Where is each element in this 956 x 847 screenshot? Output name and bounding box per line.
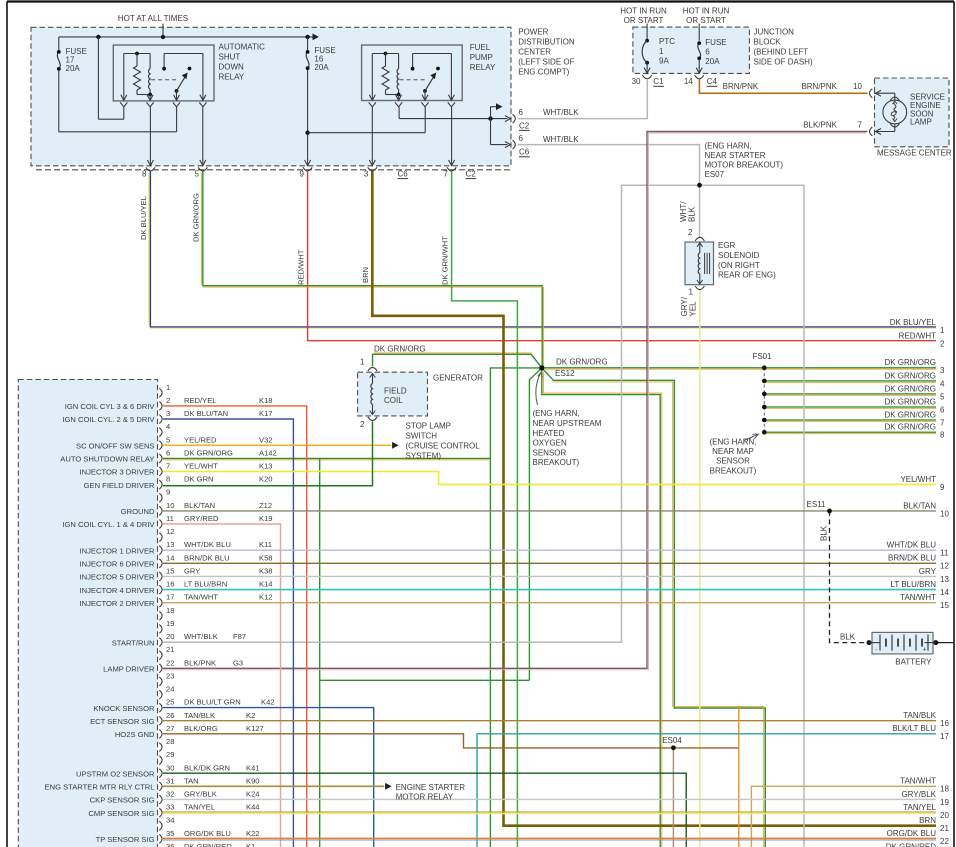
- svg-text:14: 14: [940, 588, 949, 597]
- svg-text:TAN/WHT: TAN/WHT: [900, 777, 936, 786]
- svg-text:C1: C1: [653, 77, 664, 86]
- svg-text:BLOCK: BLOCK: [754, 38, 782, 47]
- svg-text:SENSOR: SENSOR: [716, 457, 750, 466]
- svg-text:YEL/WHT: YEL/WHT: [184, 462, 218, 471]
- svg-text:AUTO SHUTDOWN RELAY: AUTO SHUTDOWN RELAY: [60, 455, 154, 464]
- svg-text:3: 3: [166, 409, 170, 418]
- svg-text:5: 5: [166, 435, 170, 444]
- svg-text:WHT/DK BLU: WHT/DK BLU: [184, 540, 231, 549]
- svg-text:C4: C4: [707, 77, 718, 86]
- svg-text:BREAKOUT): BREAKOUT): [533, 458, 580, 467]
- svg-text:31: 31: [166, 776, 174, 785]
- svg-text:BRN: BRN: [919, 816, 936, 825]
- svg-text:INJECTOR 3 DRIVER: INJECTOR 3 DRIVER: [80, 468, 155, 477]
- svg-text:K14: K14: [259, 580, 273, 589]
- svg-text:TAN/YEL: TAN/YEL: [184, 803, 215, 812]
- svg-text:DK GRN/WHT: DK GRN/WHT: [440, 236, 449, 285]
- svg-text:HOT IN RUN: HOT IN RUN: [620, 7, 667, 16]
- svg-text:K18: K18: [259, 396, 273, 405]
- svg-text:19: 19: [166, 619, 174, 628]
- svg-text:K13: K13: [259, 462, 273, 471]
- svg-text:K1: K1: [246, 842, 255, 847]
- svg-text:12: 12: [166, 527, 174, 536]
- svg-text:1: 1: [659, 47, 664, 56]
- svg-text:START/RUN: START/RUN: [112, 638, 155, 647]
- svg-text:NEAR MAP: NEAR MAP: [712, 447, 754, 456]
- svg-text:7: 7: [940, 418, 945, 427]
- svg-text:LAMP: LAMP: [910, 118, 932, 127]
- svg-text:IGN COIL CYL. 1 & 4 DRIV: IGN COIL CYL. 1 & 4 DRIV: [62, 520, 155, 529]
- svg-text:YEL/WHT: YEL/WHT: [900, 475, 936, 484]
- svg-text:21: 21: [166, 645, 174, 654]
- svg-text:TAN/YEL: TAN/YEL: [903, 803, 936, 812]
- svg-text:4: 4: [940, 379, 945, 388]
- svg-text:DK GRN/RED: DK GRN/RED: [886, 842, 936, 847]
- svg-text:REAR OF ENG): REAR OF ENG): [718, 271, 776, 280]
- svg-text:ES11: ES11: [807, 500, 827, 509]
- svg-text:K90: K90: [246, 776, 260, 785]
- svg-text:K17: K17: [259, 409, 273, 418]
- svg-text:TAN/WHT: TAN/WHT: [900, 593, 936, 602]
- svg-text:15: 15: [166, 566, 174, 575]
- svg-text:BLK: BLK: [688, 206, 697, 222]
- svg-text:BLK/PNK: BLK/PNK: [803, 121, 837, 130]
- svg-text:BRN/DK BLU: BRN/DK BLU: [184, 553, 230, 562]
- svg-text:6: 6: [519, 134, 524, 143]
- svg-text:(ENG HARN,: (ENG HARN,: [709, 437, 756, 446]
- svg-text:SENSOR: SENSOR: [533, 448, 567, 457]
- svg-text:GRY/BLK: GRY/BLK: [184, 790, 217, 799]
- svg-text:DK GRN/ORG: DK GRN/ORG: [884, 410, 936, 419]
- svg-text:K20: K20: [259, 475, 273, 484]
- svg-text:29: 29: [166, 750, 174, 759]
- svg-text:36: 36: [166, 842, 174, 847]
- svg-text:9: 9: [300, 170, 305, 179]
- svg-text:INJECTOR 4 DRIVER: INJECTOR 4 DRIVER: [80, 586, 155, 595]
- svg-text:34: 34: [166, 816, 174, 825]
- svg-text:CKP SENSOR SIG: CKP SENSOR SIG: [90, 796, 155, 805]
- svg-text:9: 9: [940, 483, 945, 492]
- svg-text:MOTOR RELAY: MOTOR RELAY: [396, 793, 454, 802]
- svg-text:HOT AT ALL TIMES: HOT AT ALL TIMES: [118, 14, 188, 23]
- svg-text:INJECTOR 6 DRIVER: INJECTOR 6 DRIVER: [80, 560, 155, 569]
- svg-text:8: 8: [166, 475, 170, 484]
- svg-text:30: 30: [166, 763, 174, 772]
- svg-text:(ENG HARN,: (ENG HARN,: [533, 409, 580, 418]
- svg-text:DK GRN/ORG: DK GRN/ORG: [884, 371, 936, 380]
- svg-text:28: 28: [166, 737, 174, 746]
- svg-text:K24: K24: [246, 790, 260, 799]
- svg-text:ECT SENSOR SIG: ECT SENSOR SIG: [90, 717, 155, 726]
- svg-text:9: 9: [166, 488, 170, 497]
- svg-text:TP SENSOR SIG: TP SENSOR SIG: [96, 835, 155, 844]
- svg-text:FIELD: FIELD: [384, 386, 407, 395]
- svg-text:GEN FIELD DRIVER: GEN FIELD DRIVER: [84, 481, 155, 490]
- svg-text:8: 8: [142, 170, 147, 179]
- svg-text:DK GRN/ORG: DK GRN/ORG: [884, 423, 936, 432]
- svg-text:DK GRN/ORG: DK GRN/ORG: [374, 345, 426, 354]
- svg-text:32: 32: [166, 790, 174, 799]
- svg-text:DOWN: DOWN: [219, 62, 245, 71]
- svg-text:TAN/WHT: TAN/WHT: [184, 593, 218, 602]
- svg-text:C6: C6: [398, 170, 409, 179]
- svg-text:BRN: BRN: [361, 267, 370, 283]
- svg-text:INJECTOR 1 DRIVER: INJECTOR 1 DRIVER: [80, 546, 155, 555]
- svg-text:WHT/BLK: WHT/BLK: [543, 135, 579, 144]
- svg-text:25: 25: [166, 698, 174, 707]
- svg-text:10: 10: [940, 509, 949, 518]
- svg-text:CMP SENSOR SIG: CMP SENSOR SIG: [88, 809, 154, 818]
- svg-text:11: 11: [940, 549, 949, 558]
- svg-text:WHT/DK BLU: WHT/DK BLU: [887, 541, 937, 550]
- svg-text:ES12: ES12: [555, 369, 575, 378]
- svg-text:KNOCK SENSOR: KNOCK SENSOR: [93, 704, 155, 713]
- svg-text:18: 18: [166, 606, 174, 615]
- svg-text:13: 13: [166, 540, 174, 549]
- svg-text:6: 6: [519, 108, 524, 117]
- svg-text:C2: C2: [519, 121, 530, 130]
- svg-text:GROUND: GROUND: [121, 507, 155, 516]
- svg-text:HOT IN RUN: HOT IN RUN: [683, 7, 730, 16]
- svg-text:DISTRIBUTION: DISTRIBUTION: [518, 38, 575, 47]
- svg-text:GRY: GRY: [184, 566, 200, 575]
- svg-text:SC ON/OFF SW SENS: SC ON/OFF SW SENS: [76, 441, 154, 450]
- svg-text:(CRUISE CONTROL: (CRUISE CONTROL: [406, 442, 481, 451]
- svg-text:14: 14: [166, 553, 174, 562]
- svg-text:7: 7: [443, 170, 448, 179]
- svg-text:HO2S GND: HO2S GND: [115, 730, 155, 739]
- svg-text:2: 2: [940, 339, 945, 348]
- svg-text:DK BLU/YEL: DK BLU/YEL: [139, 196, 148, 240]
- svg-text:20: 20: [166, 632, 174, 641]
- svg-text:6: 6: [940, 405, 945, 414]
- svg-text:OR START: OR START: [686, 16, 726, 25]
- svg-text:-: -: [875, 647, 877, 654]
- svg-text:K2: K2: [246, 711, 255, 720]
- svg-text:RELAY: RELAY: [470, 63, 496, 72]
- svg-text:A142: A142: [259, 448, 277, 457]
- svg-text:23: 23: [166, 671, 174, 680]
- svg-text:K19: K19: [259, 514, 273, 523]
- svg-text:HEATED: HEATED: [533, 429, 565, 438]
- svg-text:15: 15: [940, 601, 949, 610]
- svg-text:(ON RIGHT: (ON RIGHT: [718, 261, 760, 270]
- svg-text:DK GRN/ORG: DK GRN/ORG: [884, 397, 936, 406]
- svg-text:SWITCH: SWITCH: [406, 432, 438, 441]
- svg-text:IGN COIL CYL. 2 & 5 DRIV: IGN COIL CYL. 2 & 5 DRIV: [62, 415, 155, 424]
- svg-text:35: 35: [166, 829, 174, 838]
- svg-text:BREAKOUT): BREAKOUT): [710, 466, 757, 475]
- svg-text:K44: K44: [246, 803, 260, 812]
- svg-text:C6: C6: [519, 148, 530, 157]
- svg-text:1: 1: [940, 326, 945, 335]
- svg-text:RELAY: RELAY: [219, 72, 245, 81]
- svg-text:TAN/BLK: TAN/BLK: [184, 711, 215, 720]
- svg-text:DK GRN/RED: DK GRN/RED: [184, 842, 232, 847]
- svg-text:19: 19: [940, 798, 949, 807]
- svg-text:ORG/DK BLU: ORG/DK BLU: [887, 829, 937, 838]
- svg-text:5: 5: [940, 392, 945, 401]
- svg-text:ENG STARTER MTR RLY CTRL: ENG STARTER MTR RLY CTRL: [45, 783, 155, 792]
- svg-text:COIL: COIL: [384, 396, 403, 405]
- svg-text:ENG COMPT): ENG COMPT): [518, 68, 569, 77]
- svg-text:BLK/TAN: BLK/TAN: [184, 501, 215, 510]
- svg-text:RED/YEL: RED/YEL: [184, 396, 217, 405]
- svg-text:DK BLU/LT GRN: DK BLU/LT GRN: [184, 698, 241, 707]
- svg-text:BRN/PNK: BRN/PNK: [801, 82, 837, 91]
- svg-text:16: 16: [166, 580, 174, 589]
- svg-text:WHT/BLK: WHT/BLK: [184, 632, 218, 641]
- svg-text:FS01: FS01: [752, 352, 772, 361]
- svg-text:5: 5: [195, 170, 200, 179]
- svg-text:BLK/LT BLU: BLK/LT BLU: [892, 724, 936, 733]
- svg-text:BRN/DK BLU: BRN/DK BLU: [888, 554, 936, 563]
- svg-text:1: 1: [689, 287, 694, 296]
- svg-text:GENERATOR: GENERATOR: [433, 373, 483, 382]
- svg-text:2: 2: [166, 396, 170, 405]
- svg-text:20A: 20A: [66, 64, 81, 73]
- svg-text:27: 27: [166, 724, 174, 733]
- svg-text:30: 30: [632, 77, 641, 86]
- svg-text:7: 7: [166, 462, 170, 471]
- svg-text:RED/WHT: RED/WHT: [297, 249, 306, 285]
- svg-text:26: 26: [166, 711, 174, 720]
- svg-text:DK GRN/ORG: DK GRN/ORG: [884, 384, 936, 393]
- svg-text:16: 16: [940, 719, 949, 728]
- svg-text:2: 2: [688, 228, 693, 237]
- svg-text:NEAR UPSTREAM: NEAR UPSTREAM: [533, 419, 602, 428]
- svg-text:20A: 20A: [314, 63, 329, 72]
- svg-text:9A: 9A: [659, 57, 669, 66]
- svg-text:GRY/BLK: GRY/BLK: [901, 790, 936, 799]
- svg-text:7: 7: [858, 121, 863, 130]
- svg-text:CENTER: CENTER: [518, 48, 551, 57]
- svg-text:UPSTRM O2 SENSOR: UPSTRM O2 SENSOR: [76, 769, 155, 778]
- svg-text:K22: K22: [246, 829, 260, 838]
- svg-text:IGN COIL CYL 3 & 6 DRIV: IGN COIL CYL 3 & 6 DRIV: [65, 402, 156, 411]
- svg-text:LAMP DRIVER: LAMP DRIVER: [103, 665, 155, 674]
- svg-text:6: 6: [166, 448, 170, 457]
- svg-text:24: 24: [166, 685, 174, 694]
- svg-text:(LEFT SIDE OF: (LEFT SIDE OF: [518, 58, 574, 67]
- svg-text:SIDE OF DASH): SIDE OF DASH): [754, 58, 813, 67]
- svg-text:14: 14: [684, 77, 693, 86]
- svg-text:17: 17: [940, 732, 949, 741]
- svg-text:G3: G3: [233, 658, 243, 667]
- svg-text:SYSTEM): SYSTEM): [406, 452, 442, 461]
- svg-text:WHT/BLK: WHT/BLK: [543, 108, 579, 117]
- svg-text:EGR: EGR: [718, 241, 736, 250]
- svg-text:F87: F87: [233, 632, 246, 641]
- svg-text:GRY: GRY: [919, 567, 937, 576]
- svg-text:ES04: ES04: [662, 736, 682, 745]
- svg-text:SOLENOID: SOLENOID: [718, 251, 760, 260]
- svg-text:BLK/PNK: BLK/PNK: [184, 658, 216, 667]
- svg-text:K58: K58: [259, 553, 273, 562]
- svg-text:BLK/TAN: BLK/TAN: [903, 501, 936, 510]
- svg-text:20: 20: [940, 811, 949, 820]
- svg-text:10: 10: [853, 82, 862, 91]
- svg-text:6: 6: [705, 48, 710, 57]
- svg-text:DK GRN/ORG: DK GRN/ORG: [184, 448, 233, 457]
- svg-text:22: 22: [166, 658, 174, 667]
- svg-text:BLK/ORG: BLK/ORG: [184, 724, 218, 733]
- svg-text:DK BLU/TAN: DK BLU/TAN: [184, 409, 228, 418]
- svg-text:DK GRN: DK GRN: [184, 475, 214, 484]
- svg-text:ORG/DK BLU: ORG/DK BLU: [184, 829, 231, 838]
- svg-text:GRY/RED: GRY/RED: [184, 514, 219, 523]
- svg-text:TAN/BLK: TAN/BLK: [903, 711, 936, 720]
- svg-text:TAN: TAN: [184, 776, 199, 785]
- svg-text:22: 22: [940, 837, 949, 846]
- svg-text:18: 18: [940, 785, 949, 794]
- svg-text:12: 12: [940, 562, 949, 571]
- svg-text:1: 1: [360, 358, 365, 367]
- svg-text:DK BLU/YEL: DK BLU/YEL: [890, 318, 937, 327]
- svg-text:PUMP: PUMP: [470, 53, 493, 62]
- svg-text:MESSAGE CENTER: MESSAGE CENTER: [877, 149, 952, 158]
- svg-text:PTC: PTC: [659, 37, 675, 46]
- svg-text:DK GRN/ORG: DK GRN/ORG: [884, 358, 936, 367]
- svg-text:INJECTOR 2 DRIVER: INJECTOR 2 DRIVER: [80, 599, 155, 608]
- svg-text:(ENG HARN,: (ENG HARN,: [705, 141, 752, 150]
- svg-text:V32: V32: [259, 435, 273, 444]
- svg-text:BRN/PNK: BRN/PNK: [723, 82, 759, 91]
- svg-text:20A: 20A: [705, 57, 720, 66]
- svg-text:YEL/RED: YEL/RED: [184, 435, 217, 444]
- svg-text:DK GRN/ORG: DK GRN/ORG: [556, 358, 608, 367]
- svg-text:FUEL: FUEL: [470, 43, 491, 52]
- svg-text:13: 13: [940, 575, 949, 584]
- svg-text:INJECTOR 5 DRIVER: INJECTOR 5 DRIVER: [80, 573, 155, 582]
- svg-text:Z12: Z12: [259, 501, 272, 510]
- svg-text:11: 11: [166, 514, 174, 523]
- svg-text:OR START: OR START: [624, 16, 664, 25]
- svg-text:RED/WHT: RED/WHT: [899, 331, 936, 340]
- svg-text:LT BLU/BRN: LT BLU/BRN: [184, 580, 227, 589]
- svg-text:C2: C2: [466, 170, 477, 179]
- svg-text:3: 3: [364, 170, 369, 179]
- svg-text:JUNCTION: JUNCTION: [754, 28, 795, 37]
- svg-text:YEL: YEL: [689, 301, 698, 317]
- svg-text:MOTOR BREAKOUT): MOTOR BREAKOUT): [705, 161, 784, 170]
- svg-text:BATTERY: BATTERY: [895, 657, 932, 666]
- svg-text:(BEHIND LEFT: (BEHIND LEFT: [754, 48, 809, 57]
- svg-text:33: 33: [166, 803, 174, 812]
- svg-text:ENGINE STARTER: ENGINE STARTER: [396, 783, 466, 792]
- svg-text:NEAR STARTER: NEAR STARTER: [705, 151, 766, 160]
- svg-text:K12: K12: [259, 593, 273, 602]
- svg-text:K41: K41: [246, 763, 260, 772]
- svg-text:21: 21: [940, 824, 949, 833]
- svg-text:AUTOMATIC: AUTOMATIC: [219, 42, 266, 51]
- svg-text:K11: K11: [259, 540, 272, 549]
- svg-text:K127: K127: [246, 724, 264, 733]
- svg-text:+: +: [923, 647, 927, 654]
- svg-text:SHUT: SHUT: [219, 52, 241, 61]
- svg-text:K38: K38: [259, 566, 273, 575]
- svg-text:BLK/DK GRN: BLK/DK GRN: [184, 763, 230, 772]
- svg-text:DK GRN/ORG: DK GRN/ORG: [192, 193, 201, 242]
- svg-text:1: 1: [166, 383, 170, 392]
- svg-text:K42: K42: [261, 698, 275, 707]
- svg-text:POWER: POWER: [518, 28, 548, 37]
- svg-text:LT BLU/BRN: LT BLU/BRN: [891, 580, 937, 589]
- svg-text:STOP LAMP: STOP LAMP: [406, 422, 452, 431]
- svg-text:4: 4: [166, 422, 170, 431]
- svg-text:BLK: BLK: [820, 525, 829, 541]
- svg-text:3: 3: [940, 366, 945, 375]
- svg-text:10: 10: [166, 501, 174, 510]
- svg-text:BLK: BLK: [840, 633, 856, 642]
- svg-text:2: 2: [360, 420, 365, 429]
- svg-text:OXYGEN: OXYGEN: [533, 439, 567, 448]
- svg-text:17: 17: [166, 593, 174, 602]
- svg-text:ES07: ES07: [705, 170, 725, 179]
- svg-text:FUSE: FUSE: [705, 38, 726, 47]
- svg-text:8: 8: [940, 431, 945, 440]
